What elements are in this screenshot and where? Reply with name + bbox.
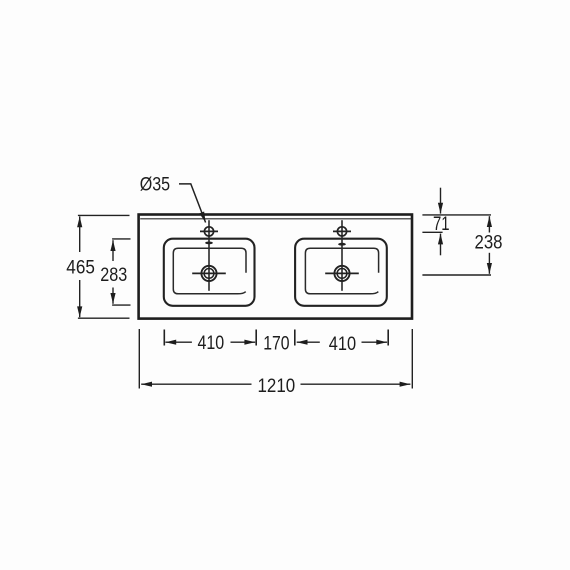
basin 2 overflow slot: [338, 243, 346, 246]
dimension 71 extension lines: [422, 215, 491, 232]
basin 1 outer rim: [164, 239, 255, 306]
basin 1 inner rim: [173, 248, 246, 293]
basin 1 drain inner circle: [204, 269, 214, 279]
dimension 1210 extension lines: [139, 329, 412, 389]
basin 1 drain outer circle: [201, 266, 216, 281]
dimension row ticks: [164, 330, 388, 346]
svg-text:465: 465: [66, 258, 95, 279]
basin 1 centerline: [208, 220, 210, 291]
basin 1 overflow slot: [205, 242, 213, 245]
basin 2 drain crosshair: [325, 272, 359, 274]
dimension 465 extension lines: [78, 215, 130, 318]
dimension 465 arrows: [79, 216, 81, 252]
basin 1 faucet hole circle: [204, 227, 213, 236]
svg-text:71: 71: [433, 214, 450, 235]
dimension 1210 arrows: [141, 383, 251, 385]
svg-text:Ø35: Ø35: [140, 175, 170, 196]
countertop outline: [139, 215, 412, 319]
svg-text:410: 410: [329, 334, 356, 355]
svg-text:410: 410: [198, 333, 225, 354]
dimension 410 right arrows: [297, 341, 320, 343]
dimension 410 left arrows: [165, 341, 192, 343]
basin 1 drain crosshair: [192, 272, 226, 274]
dimension 238 extension line: [422, 274, 491, 276]
basin 1 faucet hole side ticks: [200, 230, 218, 232]
basin 2 faucet hole circle: [337, 227, 346, 236]
basin 2 drain inner circle: [337, 269, 347, 279]
countertop back edge line: [140, 218, 411, 220]
basin 2 drain outer circle: [334, 266, 349, 281]
dimension 283 arrows: [112, 240, 114, 261]
basin 2 centerline: [341, 220, 343, 291]
dimension 283 extension lines: [112, 239, 130, 305]
svg-text:1210: 1210: [258, 376, 296, 397]
basin 2 inner rim: [305, 248, 378, 293]
svg-text:283: 283: [100, 265, 127, 286]
svg-text:238: 238: [475, 233, 503, 254]
label O35 leader line: [179, 184, 206, 223]
dimension 71 arrows: [440, 188, 442, 214]
basin 2 faucet hole side ticks: [333, 230, 351, 232]
svg-text:170: 170: [263, 333, 289, 354]
dimension 238 arrows: [488, 216, 490, 232]
basin 2 outer rim: [295, 239, 387, 306]
